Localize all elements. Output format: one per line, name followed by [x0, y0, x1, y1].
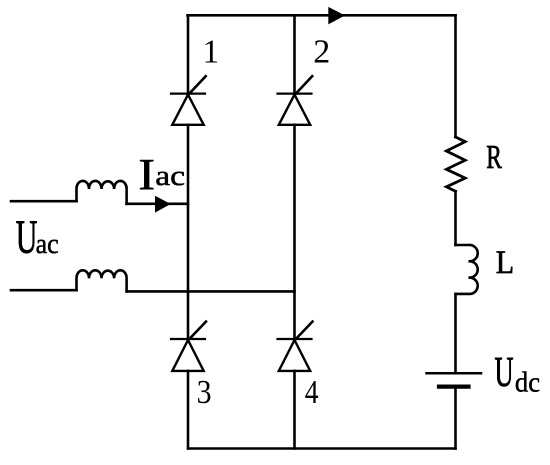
svg-text:L: L	[496, 244, 514, 281]
inductor L	[456, 245, 478, 294]
wire branch1 top segment	[187, 15, 190, 93]
thyristor 3	[171, 322, 206, 371]
svg-text:4: 4	[305, 372, 319, 410]
wire branch1 middle segment	[187, 125, 190, 339]
svg-text:1: 1	[203, 33, 219, 71]
battery Udc short plate	[439, 385, 469, 389]
wire AC top lead	[11, 200, 77, 203]
inductor AC bottom	[76, 270, 126, 291]
thyristor 4	[278, 322, 313, 371]
wire branch2 bottom segment	[293, 371, 296, 449]
wire AC bottom lead	[11, 289, 77, 292]
thyristor 2	[278, 76, 313, 125]
svg-text:I: I	[138, 151, 155, 199]
svg-text:U: U	[16, 211, 38, 264]
svg-text:ac: ac	[36, 228, 59, 259]
battery Udc long plate	[427, 372, 482, 375]
wire between L and battery	[454, 294, 457, 372]
wire bottom rail	[188, 447, 456, 450]
thyristor 1	[171, 76, 206, 125]
arrow Id on top rail	[328, 7, 345, 25]
wire branch2 top segment	[293, 15, 296, 93]
svg-text:R: R	[486, 139, 502, 176]
wire AC top to bridge	[127, 203, 188, 206]
wire between R and L	[454, 191, 457, 245]
resistor R	[446, 137, 465, 191]
svg-text:dc: dc	[515, 367, 540, 399]
wire top DC rail	[188, 14, 456, 17]
wire right branch upper segment	[454, 15, 457, 137]
svg-text:3: 3	[197, 372, 212, 410]
wire branch1 bottom segment	[187, 371, 190, 449]
svg-text:ac: ac	[155, 160, 185, 192]
wire branch2 middle segment	[293, 125, 296, 339]
wire battery to bottom rail	[454, 389, 457, 449]
svg-text:U: U	[495, 348, 514, 396]
arrow Iac	[155, 196, 171, 213]
wire AC bottom to bridge node	[127, 290, 295, 293]
svg-text:2: 2	[313, 34, 330, 71]
inductor AC top	[76, 181, 126, 204]
